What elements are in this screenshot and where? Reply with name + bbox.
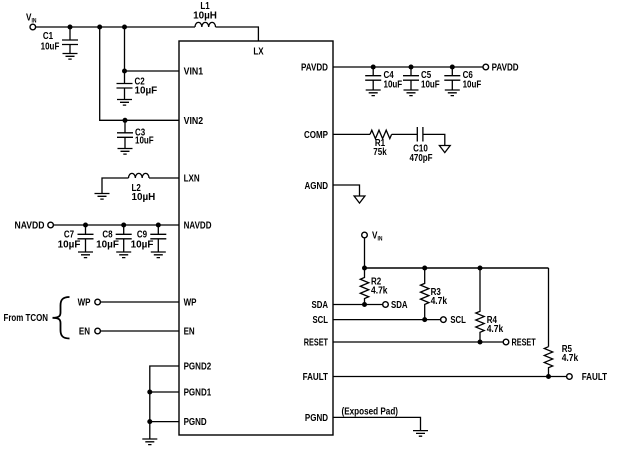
wire NAVDD rail [53,224,179,226]
svg-text:COMP: COMP [304,130,328,141]
svg-text:EN: EN [79,327,90,338]
junction SDA [362,302,367,307]
junction VIN1 branch [122,25,127,30]
svg-text:LXN: LXN [184,174,200,185]
svg-text:PGND: PGND [184,417,207,428]
wire PGND exposed pad [333,417,421,430]
svg-text:10uF: 10uF [463,80,482,91]
junction C6 [450,65,455,70]
node FAULT terminal [567,372,608,383]
wire LXN to L2 and ground [102,178,179,194]
svg-text:C1: C1 [43,31,54,42]
junction R2 top [362,266,367,271]
node VIN input terminal [26,13,36,30]
svg-text:AGND: AGND [305,181,329,192]
svg-text:10uF: 10uF [135,136,154,147]
svg-text:VIN2: VIN2 [184,116,204,127]
junction PGND [147,419,152,424]
svg-text:FAULT: FAULT [582,372,607,383]
capacitor C8 [96,225,132,252]
wire C10 to ground [423,134,445,145]
capacitor C4 [365,67,402,91]
node SDA terminal [383,300,408,311]
wire VIN2 branch down [100,27,179,120]
ground C4 [366,90,381,96]
svg-text:75k: 75k [373,147,387,158]
capacitor C10 [409,127,432,164]
junction R4 top [478,266,483,271]
svg-text:10µH: 10µH [132,192,156,203]
resistor R5 [544,344,578,377]
wire VIN rail to L1 [36,26,195,28]
node NAVDD terminal [15,221,54,232]
ground C5 [404,90,419,96]
node SCL terminal [441,315,466,326]
junction RESET [478,340,483,345]
wire SDA [333,304,383,306]
resistor R4 [476,268,504,342]
svg-text:10µF: 10µF [58,240,81,251]
svg-text:470pF: 470pF [409,153,432,164]
junction C7 [83,223,88,228]
junction SCL [422,317,427,322]
svg-text:NAVDD: NAVDD [15,221,45,232]
junction C2 [122,69,127,74]
svg-text:VIN: VIN [372,231,382,243]
svg-text:WP: WP [184,298,197,309]
wire VIN pullup down [364,238,366,268]
svg-text:EN: EN [184,327,195,338]
resistor R3 [421,268,448,320]
capacitor C2 [117,71,158,100]
ground C6 [445,90,460,96]
junction C4 [371,65,376,70]
svg-text:10µF: 10µF [96,240,119,251]
svg-text:SCL: SCL [450,315,466,326]
inductor L2 [129,173,156,203]
capacitor C1 [41,27,78,54]
capacitor C6 [444,67,481,91]
svg-text:RESET: RESET [512,338,536,349]
ground C10 triangle [439,146,450,153]
svg-text:VIN: VIN [26,13,36,25]
svg-text:PGND2: PGND2 [184,362,212,373]
ground C7 [78,252,93,258]
svg-text:10µH: 10µH [193,11,217,22]
wire PGND2 [150,366,179,439]
svg-text:4.7k: 4.7k [371,286,388,297]
capacitor C5 [403,67,440,91]
wire PGND [150,421,179,423]
ground PGND [142,439,157,445]
svg-text:PGND1: PGND1 [184,388,212,399]
node VIN pullup terminal [362,231,383,243]
svg-text:PGND: PGND [305,413,328,424]
node EN terminal [79,327,100,338]
wire RESET [333,341,503,343]
svg-text:(Exposed Pad): (Exposed Pad) [342,407,399,418]
node PAVDD terminal [483,63,519,74]
ground C8 [116,252,131,258]
wire FAULT [333,376,567,378]
wire L1 to LX pin [216,27,259,41]
svg-text:SDA: SDA [391,300,408,311]
ground C3 [118,149,133,155]
wire AGND [333,185,360,196]
svg-text:4.7k: 4.7k [562,353,579,364]
junction C9 [156,223,161,228]
ground AGND triangle [354,196,365,203]
node WP terminal [78,298,101,309]
junction C5 [409,65,414,70]
capacitor C7 [58,225,94,252]
svg-text:10uF: 10uF [41,42,60,53]
svg-text:10uF: 10uF [421,80,440,91]
ground exposed pad [413,431,428,437]
op-amp U1 [179,41,333,435]
svg-text:NAVDD: NAVDD [184,221,212,232]
svg-text:From TCON: From TCON [4,313,49,324]
wire EN [100,330,179,332]
svg-text:4.7k: 4.7k [431,296,448,307]
junction C1 [68,25,73,30]
junction C8 [121,223,126,228]
svg-text:VIN1: VIN1 [184,67,204,78]
ground LXN [95,194,110,200]
ground C2 [117,100,132,106]
svg-text:RESET: RESET [304,338,328,349]
resistor R1 [370,130,392,158]
junction PGND1 [147,390,152,395]
wire R1 to C10 [392,133,418,135]
wire PAVDD rail [333,66,483,68]
svg-text:SDA: SDA [312,300,329,311]
svg-text:10uF: 10uF [384,80,403,91]
wire SCL [333,319,441,321]
wire VIN1 branch down [125,27,180,71]
resistor R2 [360,268,388,305]
junction R3 top [422,266,427,271]
svg-text:WP: WP [78,298,91,309]
svg-text:SCL: SCL [313,315,329,326]
svg-text:PAVDD: PAVDD [492,63,519,74]
inductor L1 [193,1,217,27]
wire COMP to R1 [333,133,370,135]
svg-text:LX: LX [253,47,264,58]
wire PGND1 [150,391,179,393]
wire pullup bus [365,267,549,269]
svg-text:10µF: 10µF [135,86,158,97]
svg-text:PAVDD: PAVDD [301,63,328,74]
capacitor C9 [131,225,167,252]
junction VIN2 branch [97,25,102,30]
svg-text:10µF: 10µF [131,240,154,251]
junction FAULT [546,374,551,379]
junction C3 [123,118,128,123]
ground C9 [151,252,166,258]
brace TCON [53,297,70,339]
node RESET terminal [503,338,536,349]
svg-text:FAULT: FAULT [303,372,328,383]
ground C1 [63,54,78,60]
capacitor C3 [117,120,154,148]
wire WP [100,301,179,303]
svg-text:4.7k: 4.7k [487,324,504,335]
